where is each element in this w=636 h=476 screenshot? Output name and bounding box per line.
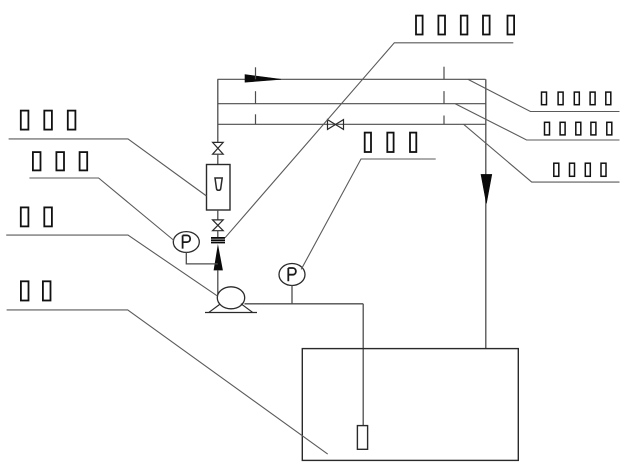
- leader for label L1 (to flow meter): [9, 139, 207, 196]
- flow meter float: [215, 178, 222, 190]
- leader for label T (to coupling): [225, 43, 513, 238]
- leader for label L4 (to tank): [7, 310, 328, 454]
- tick mark group A (x=255.5) on headers: [255, 67, 257, 124]
- tick mark group B (x=444) on headers: [443, 67, 445, 125]
- wire: gauge P2 stem: [291, 286, 293, 304]
- flow arrow (down) on right downcomer: [481, 174, 492, 203]
- label R1: right text row 1 (5 tofu boxes): [542, 92, 611, 105]
- tank (water reservoir): [302, 349, 518, 461]
- flexible coupling (striped flange stack): [211, 238, 225, 243]
- reducer (solid up-pointing taper) on pump suction: [214, 244, 223, 270]
- leader for label R1 (to header line 1): [468, 79, 620, 111]
- pressure gauge P2: [279, 264, 305, 286]
- label T: top text (5 tofu boxes): [416, 16, 514, 35]
- leader for label L3 (to pump): [6, 235, 217, 296]
- pressure gauge P1: [173, 232, 199, 253]
- pump (circle with mount): [205, 287, 257, 313]
- flow meter FM body: [207, 165, 231, 211]
- wire: suction drop into tank: [362, 304, 364, 426]
- pipe header line 2 (middle): [218, 103, 486, 105]
- flow direction arrow on header line 1: [245, 75, 281, 83]
- pipe header line 1 (top): [218, 78, 486, 80]
- wire: flow meter to valve V2: [217, 210, 219, 220]
- label R3: right text row 3 (4 tofu boxes): [554, 163, 606, 176]
- valve V1 (vertical gate valve above flow meter): [213, 142, 224, 154]
- leader for label R2 (to header line 2): [455, 104, 619, 140]
- valve V2 (vertical gate valve below flow meter): [213, 220, 224, 231]
- wire: right downcomer from header into tank: [485, 79, 487, 348]
- label L3: left text row 3 (2 tofu boxes): [21, 207, 52, 226]
- leader for label R3 (to header line 3): [464, 124, 620, 182]
- foot strainer inside tank: [357, 426, 367, 450]
- label L2: left text row 2 (3 tofu boxes): [33, 152, 87, 170]
- valve V3 (horizontal gate valve on header line 3): [328, 120, 344, 130]
- label L4: left text row 4 (2 tofu boxes): [21, 281, 51, 300]
- wire: valve V2 to coupling: [217, 231, 219, 237]
- label R2: right text row 2 (5 tofu boxes): [545, 122, 612, 135]
- wire: reducer to pump inlet: [217, 270, 219, 295]
- leader for label L2 (to gauge P1): [29, 178, 174, 241]
- wire: left riser from header down to valve V1: [217, 79, 219, 142]
- wire: gauge P1 stem: [186, 252, 218, 264]
- label L1: left text row 1 (3 tofu boxes): [21, 111, 76, 130]
- pipe header line 3 (bottom): [218, 123, 486, 125]
- wire: pump discharge horizontal run: [245, 303, 364, 305]
- label C: center text (3 tofu boxes): [365, 133, 417, 152]
- wire: valve V1 to flow meter: [217, 154, 219, 164]
- leader for label C (to gauge P2): [301, 159, 436, 269]
